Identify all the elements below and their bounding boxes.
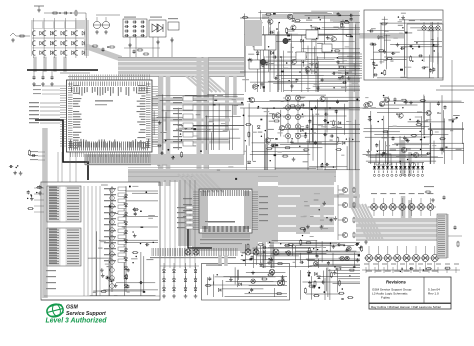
svg-text:Fujitsu: Fujitsu [381, 296, 390, 300]
svg-text:GSM: GSM [66, 305, 78, 311]
svg-text:Revisions: Revisions [386, 280, 406, 285]
svg-text:Rev 1.0: Rev 1.0 [428, 292, 439, 296]
svg-text:Service Support: Service Support [66, 311, 106, 317]
svg-text:Ray Collins / Michael Hanson /: Ray Collins / Michael Hanson / Ralf Lawr… [371, 305, 441, 309]
svg-text:Level 3 Authorized: Level 3 Authorized [46, 318, 108, 325]
